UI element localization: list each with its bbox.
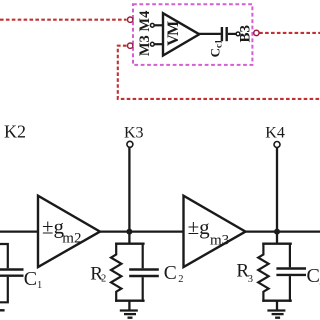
RC pair 2: node wire down [276,232,278,244]
capacitor Cc1 [222,27,227,41]
rail top 2 [262,242,292,244]
wire K3 down to node [128,147,130,231]
wire (red dashed) lower-left feedback wire to bottom horizontal bus [118,46,320,99]
op-amp VM input pin upper [150,23,154,27]
resistor R3 [258,243,268,302]
svg-text:VM: VM [165,21,182,46]
resistor R2 [111,243,121,302]
node B junction dot [274,229,280,235]
op-amp gm2 triangle [38,196,100,267]
svg-text:K4: K4 [265,125,285,142]
svg-text:m2: m2 [62,231,81,247]
svg-text:2: 2 [101,273,106,284]
svg-text:m3: m3 [210,233,229,249]
pin circle after Cc1 [236,32,240,36]
rail top 1 [115,242,145,244]
wire input to gm2 [0,230,38,232]
capacitor C1 branch (left edge, partially cut) [0,244,8,302]
compensation block dashed box [133,4,252,65]
svg-text:3: 3 [248,274,253,285]
svg-text:Cc1: Cc1 [207,39,223,57]
wire (red dashed) output of compensation block to right edge [259,32,320,34]
svg-text:B3: B3 [238,25,254,43]
wire (red dashed) input net to compensation block top terminal [0,19,127,21]
ground (left, partial) [0,309,5,311]
svg-text:C: C [24,268,37,290]
capacitor C2 [142,243,144,269]
terminal (top-left of box) [128,17,133,22]
op-amp VM input pin lower [150,42,154,46]
wire Cc1 to pin [228,33,236,35]
wire op-amp output to Cc1 [199,33,221,35]
svg-text:K2: K2 [4,121,26,141]
svg-text:1: 1 [37,280,42,291]
wire gm3 output to right edge [246,230,320,232]
svg-text:K3: K3 [124,125,144,142]
ground 2 [267,301,285,318]
svg-text:2: 2 [178,274,183,285]
op-amp gm3 triangle [184,196,246,267]
terminal K3 [127,141,133,147]
svg-text:C: C [164,263,177,284]
terminal (bottom-left of box) [128,43,133,48]
node A junction dot [126,229,132,235]
RC pair 1: node wire down [128,232,130,244]
svg-text:±g: ±g [188,215,211,239]
wire K4 down to node [276,148,278,232]
rail bottom 1 [115,300,145,302]
wire gm2 output to gm3 input [100,230,184,232]
svg-text:±g: ±g [42,215,65,239]
svg-text:C: C [307,265,320,287]
terminal B3 (right edge of box) [254,30,259,35]
ground 1 [120,301,138,318]
op-amp VM triangle [163,13,199,55]
terminal K4 [274,142,280,148]
rail bottom 2 [262,300,292,302]
svg-text:M3 M4: M3 M4 [137,11,153,57]
capacitor C3 [289,243,291,268]
